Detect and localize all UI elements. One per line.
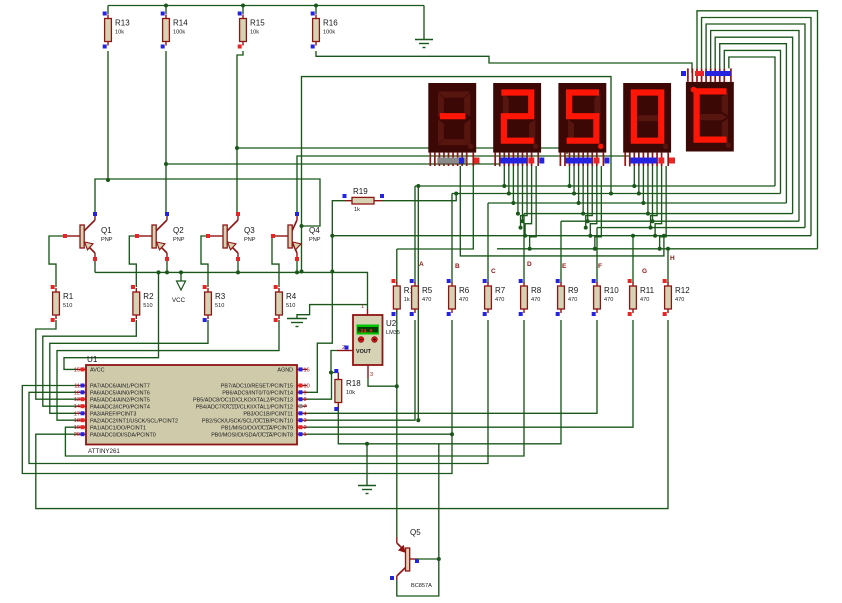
svg-text:R12: R12 [675, 286, 690, 295]
node R13/Q1-bus junction [106, 178, 110, 182]
svg-text:470: 470 [495, 297, 504, 303]
resistor R17 [392, 279, 420, 316]
node DS4 drop junction 1 [632, 184, 636, 188]
U1 pin 2 [297, 426, 307, 428]
svg-text:D: D [527, 261, 532, 268]
wire R5 top riser [414, 186, 416, 283]
resistor R16 [311, 12, 339, 49]
U1 pin 3 [297, 419, 307, 421]
wire R14 top lead wire [165, 6, 167, 15]
svg-text:R11: R11 [640, 286, 655, 295]
svg-text:100k: 100k [323, 30, 335, 36]
svg-text:ATTINY261: ATTINY261 [88, 448, 120, 455]
wire DS2 segment drop 5 [522, 166, 524, 221]
svg-text:R5: R5 [422, 286, 433, 295]
resistor R3 [203, 285, 226, 322]
U1 pin 8 [297, 398, 307, 400]
wire R9 bottom to ground rail [439, 320, 561, 444]
wire DS4 segment drop 3 [642, 166, 644, 203]
wire DS2 segment drop 2 [508, 166, 510, 194]
wire DS1 segment drop 1 to DS4 link [460, 166, 664, 256]
node DS2 drop junction 1 [502, 184, 506, 188]
U1 pin 14 [76, 405, 86, 407]
wire gnd3 jog [297, 305, 368, 319]
svg-text:3: 3 [304, 418, 307, 424]
node feed joins L2 line [300, 224, 304, 228]
node DS1 drop 1 joins bus G [662, 234, 666, 238]
transistor Q2 PNP [135, 212, 185, 261]
node DS2 drop junction 4 [516, 212, 520, 216]
wire pin1 link to R6 net [307, 433, 452, 435]
svg-text:8: 8 [304, 397, 307, 403]
node DS2 drop junction 7 [523, 234, 527, 238]
node R15/Q3-bus junction [235, 146, 239, 150]
svg-text:PA5/ADC4/AIN2/PCINT5: PA5/ADC4/AIN2/PCINT5 [90, 397, 150, 403]
wire DS3 segment drop 3 [578, 166, 580, 203]
wire DS3 segment drop 8 [595, 166, 602, 249]
wire R15 bottom jog to Q3 bus [237, 51, 243, 148]
wire R6 bottom around to pin11 [22, 320, 452, 474]
wire DS3 segment drop 7 [590, 166, 597, 236]
node L2 rail junction [300, 270, 304, 274]
svg-text:BC857A: BC857A [411, 583, 432, 589]
wire DS3 segment drop 2 [573, 166, 575, 194]
node feed/R19 vertical joins bus G [330, 234, 334, 238]
wire DS3 segment drop 6 [586, 166, 593, 228]
svg-text:VCC: VCC [172, 297, 186, 304]
node DS4 drop junction 6 [649, 226, 653, 230]
wire DS4 segment drop 5 [652, 166, 654, 221]
svg-text:1: 1 [361, 304, 364, 310]
wire DS2 common drop [499, 164, 501, 167]
svg-text:2: 2 [304, 425, 307, 431]
U1 pin 7 [297, 405, 307, 407]
wire segment bus C [488, 202, 786, 204]
svg-text:1k: 1k [354, 207, 360, 213]
node DS3 drop junction 2 [572, 192, 576, 196]
svg-text:C: C [491, 268, 496, 275]
wire DS2 segment drop 8 [530, 166, 537, 249]
svg-text:PA4/ADC3/ICP0/PCINT4: PA4/ADC3/ICP0/PCINT4 [90, 404, 150, 410]
wire Q4 collector bus to DS4 [297, 156, 630, 214]
svg-text:R9: R9 [568, 286, 579, 295]
wire R16 top lead wire [315, 6, 317, 15]
svg-text:10k: 10k [115, 30, 124, 36]
node top rail junction x166 [164, 4, 168, 8]
wire R5 bottom to pin3 [307, 320, 415, 420]
resistor R15 [238, 12, 266, 49]
svg-text:100k: 100k [173, 30, 185, 36]
wire Q1 base wire to R1 [49, 236, 63, 287]
wire DS2 segment drop 1 [503, 166, 505, 186]
ground (top, near R16) [415, 40, 433, 48]
node R19 vertical joins emitter rail [330, 270, 334, 274]
node DS4 drop junction 7 [653, 234, 657, 238]
DS3 selection markers [566, 158, 593, 164]
wire top VCC rail [108, 5, 424, 7]
svg-text:470: 470 [422, 297, 431, 303]
wire Q3 base wire to R3 [201, 236, 208, 287]
svg-text:470: 470 [675, 297, 684, 303]
wire R7 top riser [487, 203, 489, 283]
svg-text:R4: R4 [286, 292, 297, 301]
svg-text:510: 510 [286, 303, 295, 309]
node DS2 drop junction 8 [528, 247, 532, 251]
wire Q2 base wire to R2 [129, 236, 136, 287]
resistor R11 [628, 279, 655, 316]
wire DS3 segment drop 1 [569, 166, 571, 186]
svg-text:R19: R19 [353, 187, 368, 196]
svg-text:Q1: Q1 [101, 226, 112, 235]
wire R8 bottom around to pin19 [65, 320, 524, 456]
resistor R8 [519, 279, 542, 316]
svg-text:10: 10 [304, 384, 310, 390]
wire segment bus F [597, 227, 805, 229]
svg-text:PA7/ADC6/AIN1/PCINT7: PA7/ADC6/AIN1/PCINT7 [90, 384, 150, 390]
svg-text:PA0/ADC0/DI/SDA/PCINT0: PA0/ADC0/DI/SDA/PCINT0 [90, 432, 156, 438]
svg-text:R18: R18 [346, 379, 361, 388]
wire DS3 segment drop 4 [582, 166, 584, 214]
wire top rail to ground drop [423, 6, 425, 40]
svg-text:R16: R16 [323, 19, 338, 28]
transistor Q4 PNP [271, 212, 321, 261]
svg-text:Q2: Q2 [173, 226, 184, 235]
wire R10 top riser [596, 228, 598, 283]
U1 pin 16 [297, 368, 307, 370]
wire segment bus H [497, 248, 818, 250]
transistor Q1 PNP [63, 212, 113, 261]
DS4 selection markers [630, 158, 657, 164]
resistor R9 [556, 279, 579, 316]
wire DS4 segment drop 1 [633, 166, 635, 186]
wire R19 right to bus B [383, 194, 457, 201]
wire DS5 segment wire 8 [729, 57, 775, 186]
wire R14 bottom to Q2 bus [165, 51, 167, 164]
wire R12 bottom around to pin20 [36, 320, 668, 509]
node rail junction Q2 emitter [165, 270, 169, 274]
svg-text:PNP: PNP [244, 237, 256, 243]
node DS3 drop junction 5 [586, 219, 590, 223]
wire Q1 collector bus / feed [95, 179, 320, 226]
svg-text:18: 18 [74, 418, 80, 424]
svg-text:470: 470 [459, 297, 468, 303]
svg-text:PNP: PNP [309, 237, 321, 243]
svg-text:B: B [455, 263, 460, 270]
svg-text:PB0/MOSI/DI/SDA/OC1A/PCINT8: PB0/MOSI/DI/SDA/OC1A/PCINT8 [211, 432, 293, 438]
7-segment display DS3 (digit 5) [558, 83, 606, 166]
svg-text:PB7/ADC10/RESET/PCINT15: PB7/ADC10/RESET/PCINT15 [221, 384, 293, 390]
wire Q4 base wire to R4 [271, 236, 279, 287]
resistor R4 [274, 285, 297, 322]
wire R19 left to pin9 chain [307, 201, 345, 393]
resistor R5 [410, 279, 433, 316]
svg-text:15: 15 [74, 367, 80, 373]
svg-text:R1: R1 [63, 292, 74, 301]
wire R13 top lead wire [107, 6, 109, 15]
node DS2 drop junction 6 [519, 226, 523, 230]
wire DS2 segment drop 4 [517, 166, 519, 214]
U1 pin 15 [76, 368, 86, 370]
resistor R12 [663, 279, 691, 316]
wire DS4 segment drop 6 [651, 166, 658, 228]
svg-text:AGND: AGND [277, 368, 293, 374]
svg-text:PB6/ADC9/INT0/T0/PCINT14: PB6/ADC9/INT0/T0/PCINT14 [222, 391, 293, 397]
wire Q5 collector loop [397, 559, 439, 596]
wire R16 bottom to DS5 common (L1) [316, 51, 692, 73]
node DS3 drop junction 1 [568, 184, 572, 188]
svg-text:16: 16 [304, 367, 310, 373]
wire AVCC to VCC rail [64, 272, 159, 369]
wire DS1 segment drop 2 to R17 [397, 166, 474, 249]
svg-text:470: 470 [568, 297, 577, 303]
wire R9 top riser [560, 221, 562, 283]
svg-text:AVCC: AVCC [90, 368, 105, 374]
svg-text:PA1/ADC1/DO/PCINT1: PA1/ADC1/DO/PCINT1 [90, 425, 146, 431]
node DS3 drop junction 8 [593, 247, 597, 251]
node R12 riser on bus H [666, 247, 670, 251]
node R14/Q2-bus junction [164, 162, 168, 166]
svg-text:R10: R10 [604, 286, 619, 295]
svg-text:7: 7 [304, 404, 307, 410]
svg-text:Q5: Q5 [410, 528, 421, 537]
svg-text:PNP: PNP [173, 237, 185, 243]
svg-text:LM35: LM35 [386, 330, 400, 336]
svg-text:R7: R7 [495, 286, 506, 295]
svg-text:9: 9 [304, 390, 307, 396]
node AVCC rail junction [157, 270, 161, 274]
wire DS5 segment wire 6 [720, 44, 787, 203]
node pin3/R17 junction [395, 384, 399, 388]
svg-text:PB2/SCK/USCK/SCL/OC1B/PCINT10: PB2/SCK/USCK/SCL/OC1B/PCINT10 [202, 418, 293, 424]
svg-text:14: 14 [74, 404, 80, 410]
resistor R1 [51, 285, 74, 322]
U1 pin 11 [76, 385, 86, 387]
svg-text:Q3: Q3 [244, 226, 255, 235]
svg-text:510: 510 [215, 303, 224, 309]
wire gnd2 stem [366, 444, 368, 485]
wire R6 top riser [451, 194, 453, 284]
svg-text:E: E [562, 263, 567, 270]
U1 pin 13 [76, 398, 86, 400]
VCC power symbol [172, 272, 186, 304]
wire Q3 collector bus to DS3 (behind displays) [237, 148, 567, 215]
DS5 selection markers [681, 71, 686, 76]
svg-text:10k: 10k [346, 390, 355, 396]
svg-text:R2: R2 [143, 292, 154, 301]
wire DS5 segment wire 4 [711, 31, 799, 222]
svg-text:PA3/AREF/PCINT3: PA3/AREF/PCINT3 [90, 412, 136, 418]
node DS4 drop junction 5 [651, 219, 655, 223]
wire R17/pin3 node down to Q5 [396, 386, 398, 537]
wire PB3 riser to bus A [417, 185, 419, 420]
node riser joins bus A [416, 184, 420, 188]
svg-text:470: 470 [604, 297, 613, 303]
node DS2 drop junction 5 [521, 219, 525, 223]
svg-text:12: 12 [74, 390, 80, 396]
node rail junction Q4 emitter [295, 270, 299, 274]
resistor R7 [483, 279, 506, 316]
svg-text:13: 13 [74, 397, 80, 403]
DS2 selection markers [500, 158, 527, 164]
wire R17 bottom to Q5 emitter [396, 310, 398, 386]
node DS2 drop junction 3 [511, 201, 515, 205]
U2 LM35 temperature sensor [337, 304, 400, 378]
wire DS2 segment drop 6 [521, 166, 528, 228]
wire Q1 emitter drop [94, 259, 96, 272]
wire DS4 segment drop 7 [655, 166, 662, 236]
wire R18 bottom / ground rail [338, 409, 439, 559]
wire DS5 segment wire 3 [706, 24, 805, 228]
7-segment display DS1 (minus sign) [428, 83, 476, 166]
wire DS5 segment wire 1 [697, 11, 818, 249]
wire R4 bottom to nest [57, 320, 279, 420]
node VOUT/R18/pin8 junction [329, 371, 333, 375]
wire DS5 segment wire 2 [702, 18, 811, 236]
svg-text:H: H [670, 255, 675, 262]
wire U2 pin3 to R17 column [368, 378, 397, 386]
svg-text:R6: R6 [459, 286, 470, 295]
wire R3 bottom to nest [50, 320, 208, 413]
svg-text:U1: U1 [87, 355, 98, 364]
node R11 riser on bus G [631, 234, 635, 238]
svg-text:R8: R8 [531, 286, 542, 295]
svg-text:PNP: PNP [101, 237, 113, 243]
IC U1 ATTINY261 microcontroller [74, 355, 310, 455]
wire DS5 segment wire 5 [715, 37, 792, 213]
U1 pin 20 [76, 433, 86, 435]
svg-text:R13: R13 [115, 19, 130, 28]
node DS4 drop junction 3 [641, 201, 645, 205]
wire segment bus E [561, 220, 799, 222]
node DS2 drop junction 2 [507, 192, 511, 196]
svg-text:1: 1 [304, 432, 307, 438]
node rail junction VCC stub [179, 270, 183, 274]
wire segment bus A [415, 185, 775, 187]
svg-text:1k: 1k [404, 297, 410, 303]
svg-text:PA2/ADC2/INT1/USCK/SCL/PCINT2: PA2/ADC2/INT1/USCK/SCL/PCINT2 [90, 418, 178, 424]
node pin1 joins R6 vertical [450, 432, 454, 436]
U1 pin 12 [76, 391, 86, 393]
node L2 bus junction [609, 192, 613, 196]
svg-text:470: 470 [531, 297, 540, 303]
U1 pin 1 [297, 433, 307, 435]
svg-text:PB4/ADC7/OC1D/CLKI/XTAL1/PCINT: PB4/ADC7/OC1D/CLKI/XTAL1/PCINT12 [196, 404, 293, 410]
resistor R10 [592, 279, 620, 316]
svg-text:510: 510 [63, 303, 72, 309]
svg-text:R14: R14 [173, 19, 188, 28]
node rail junction Q3 emitter [236, 270, 240, 274]
wire Q5 base to gnd rail [417, 558, 439, 560]
node Q5 base junction [437, 557, 441, 561]
U1 pin 19 [76, 426, 86, 428]
resistor R19 [343, 187, 385, 213]
svg-text:A: A [419, 261, 424, 268]
DS1 selection markers [437, 158, 466, 164]
U1 pin 18 [76, 419, 86, 421]
svg-text:20: 20 [74, 432, 80, 438]
wire emitter VCC rail [95, 272, 368, 309]
wire DS4 segment drop 2 [638, 166, 640, 194]
node DS4 drop junction 4 [646, 212, 650, 216]
svg-text:Q4: Q4 [309, 226, 320, 235]
wire R17 top riser [396, 249, 398, 283]
wire R12 top riser [667, 249, 669, 283]
wire Q4 emitter drop [296, 259, 298, 272]
svg-text:F: F [598, 263, 602, 270]
resistor R6 [447, 279, 470, 316]
resistor R13 [103, 12, 131, 49]
node DS4 drop junction 8 [658, 247, 662, 251]
7-segment display DS4 (digit 0) [623, 83, 671, 166]
svg-text:-24.9: -24.9 [358, 328, 373, 334]
wire L2 line above displays [302, 77, 612, 272]
wire R10 bottom to pin4 [307, 320, 597, 413]
wire DS4 segment drop 8 [660, 166, 667, 249]
svg-text:470: 470 [640, 297, 649, 303]
wire R2 bottom to nest [43, 320, 137, 406]
svg-text:17: 17 [74, 411, 80, 417]
node DS3 drop junction 3 [577, 201, 581, 205]
wire segment bus B [452, 193, 781, 195]
resistor R18 [334, 369, 361, 411]
7-segment display DS2 (digit 2) [493, 83, 541, 166]
wire DS3 segment drop 5 [587, 166, 589, 221]
svg-text:VOUT: VOUT [356, 349, 372, 355]
node top rail junction x243 [241, 4, 245, 8]
wire DS5 segment wire 7 [724, 50, 780, 193]
wire DS2 segment drop 3 [512, 166, 514, 203]
node DS3 drop junction 7 [588, 234, 592, 238]
node DS3 drop junction 4 [581, 212, 585, 216]
wire DS2 segment drop 7 [525, 166, 532, 236]
7-segment display DS5 (letter C) [686, 68, 734, 151]
U1 pin 17 [76, 412, 86, 414]
node R19 joins bus B [454, 192, 458, 196]
node DS4 drop junction 2 [637, 192, 641, 196]
node top rail junction x316 [314, 4, 318, 8]
wire DS4 segment drop 4 [647, 166, 649, 214]
wire Q2 emitter drop [166, 259, 168, 272]
ground (below R18) [358, 486, 376, 494]
svg-text:PB3/OC1B/PCINT11: PB3/OC1B/PCINT11 [243, 412, 293, 418]
U1 pin 9 [297, 391, 307, 393]
wire segment bus G [332, 235, 811, 237]
svg-text:G: G [642, 268, 647, 275]
svg-text:3: 3 [370, 372, 373, 378]
svg-text:4: 4 [304, 411, 307, 417]
wire pin8 wire to R18 node [307, 373, 332, 400]
svg-text:PA6/ADC5/AIN0/PCINT6: PA6/ADC5/AIN0/PCINT6 [90, 391, 150, 397]
node riser joins pin3 line [416, 418, 420, 422]
U1 pin 4 [297, 412, 307, 414]
wire segment bus D [524, 213, 793, 215]
node DS3 drop junction 6 [584, 226, 588, 230]
wire Q3 emitter drop [237, 259, 239, 272]
svg-text:11: 11 [74, 384, 80, 390]
wire VOUT to R18 top [331, 351, 337, 373]
wire R13 bottom to Q1 bus [107, 51, 109, 180]
resistor R14 [161, 12, 189, 49]
svg-text:10k: 10k [250, 30, 259, 36]
wire R15 top lead wire [242, 6, 244, 15]
node ground tap [365, 442, 369, 446]
svg-text:510: 510 [143, 303, 152, 309]
transistor Q5 BC857A [390, 528, 432, 589]
wire R11 top riser [632, 236, 634, 283]
svg-text:R3: R3 [215, 292, 226, 301]
wire R1 bottom to nest [36, 320, 76, 399]
svg-text:19: 19 [74, 425, 80, 431]
